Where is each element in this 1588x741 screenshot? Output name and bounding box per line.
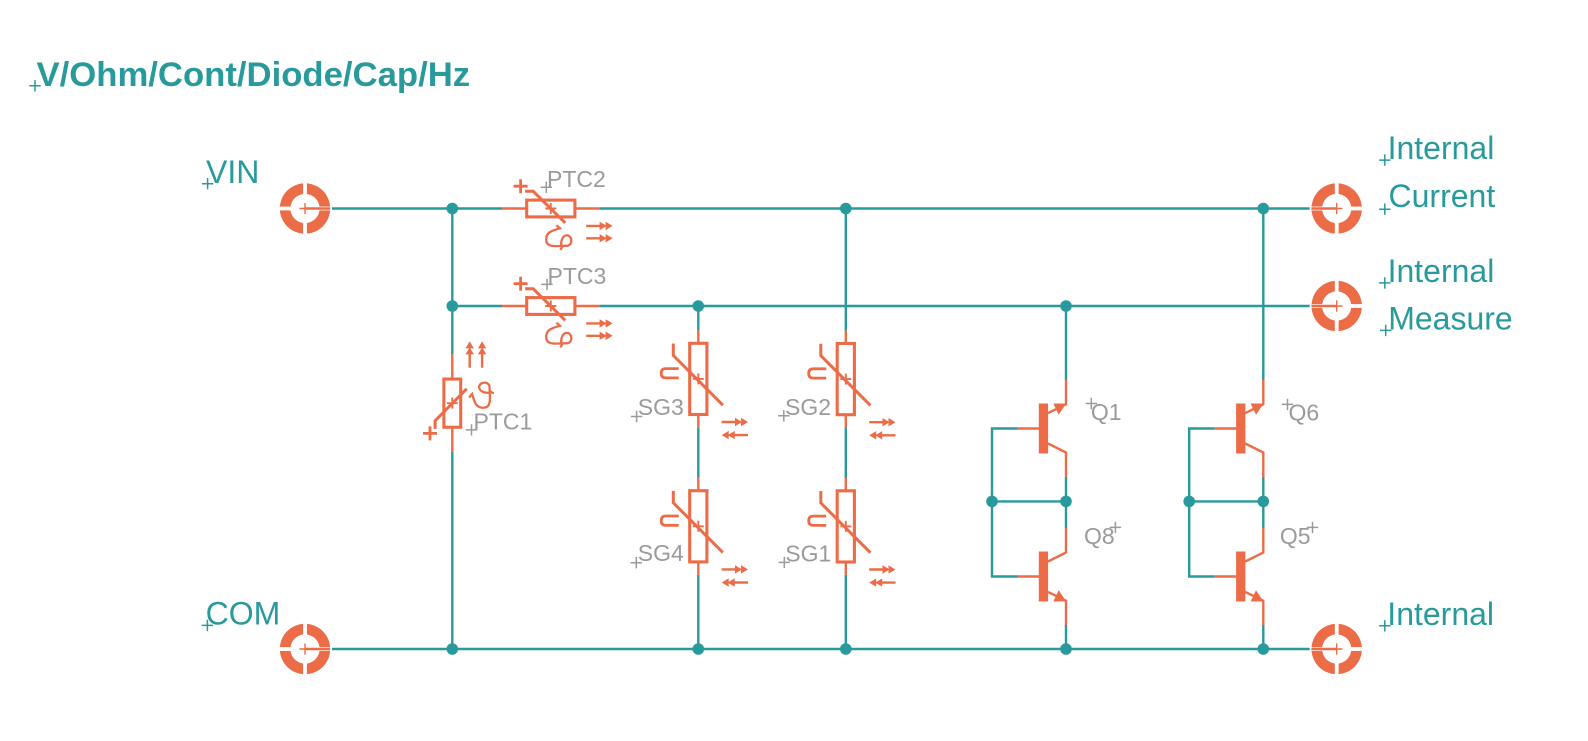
wire Q1 collector to mid xyxy=(1065,477,1067,528)
label PTC3 xyxy=(541,263,606,290)
node second rail / PTC1 col xyxy=(447,300,459,312)
wire Q1/Q8 mid xyxy=(992,500,1066,502)
transistor Q1 xyxy=(1018,380,1067,477)
node top rail / SG2 col xyxy=(840,203,852,215)
label Q6 xyxy=(1282,399,1319,426)
svg-text:SG2: SG2 xyxy=(785,394,831,420)
node Q1Q8 mid right xyxy=(1060,496,1072,508)
wire Q5 emitter to rail xyxy=(1262,625,1264,649)
wire Q1 emitter xyxy=(1065,306,1067,380)
wire SG3-SG4 xyxy=(697,427,699,477)
wire Q6/Q5 base loop xyxy=(1189,429,1215,577)
node second rail / SG3 col xyxy=(693,300,705,312)
thermistor PTC3 xyxy=(502,277,613,348)
svg-text:V/Ohm/Cont/Diode/Cap/Hz: V/Ohm/Cont/Diode/Cap/Hz xyxy=(37,56,471,94)
varistor SG4 xyxy=(661,478,748,587)
svg-text:Internal: Internal xyxy=(1388,130,1495,166)
wire PTC1 column upper xyxy=(451,209,453,355)
wire SG2 top xyxy=(845,209,847,331)
varistor SG2 xyxy=(809,331,896,440)
svg-text:SG1: SG1 xyxy=(785,540,831,566)
varistor SG3 xyxy=(661,330,748,439)
wires (teal) xyxy=(330,209,1311,650)
wire PTC1 column lower xyxy=(451,452,453,649)
port Internal Measure xyxy=(1310,279,1364,333)
title xyxy=(29,56,470,94)
node top rail / PTC1 col xyxy=(447,203,459,215)
label Internal (current) xyxy=(1379,130,1494,166)
wire bottom rail xyxy=(330,648,1311,650)
thermistor PTC1 (rotated 90 ccw) xyxy=(423,341,494,452)
wire second rail right xyxy=(600,305,1312,307)
svg-text:PTC1: PTC1 xyxy=(474,408,533,434)
svg-text:SG3: SG3 xyxy=(638,394,684,420)
wire top rail left xyxy=(330,207,502,209)
wire second rail left xyxy=(452,305,502,307)
varistor SG1 xyxy=(809,478,896,587)
node Q6Q5 mid right xyxy=(1258,496,1270,508)
wire Q6/Q5 mid xyxy=(1189,500,1263,502)
wire SG1 bottom xyxy=(845,575,847,649)
node bottom rail / SG1 col xyxy=(840,643,852,655)
svg-text:Internal: Internal xyxy=(1387,596,1494,632)
svg-text:Current: Current xyxy=(1389,178,1496,214)
label SG1 xyxy=(779,540,832,568)
node Q1Q8 mid left xyxy=(986,496,998,508)
label Q1 xyxy=(1086,398,1122,425)
node bottom rail / Q5 col xyxy=(1258,643,1270,655)
label SG4 xyxy=(631,540,684,568)
node Q6Q5 mid left xyxy=(1183,496,1195,508)
thermistor PTC2 xyxy=(502,179,613,250)
wire Q8 emitter to rail xyxy=(1065,625,1067,649)
label Current xyxy=(1379,178,1495,215)
label Internal (bottom) xyxy=(1379,596,1494,632)
svg-text:PTC2: PTC2 xyxy=(547,166,606,192)
label PTC1 xyxy=(466,408,532,435)
svg-text:PTC3: PTC3 xyxy=(548,263,607,289)
label COM xyxy=(202,596,281,632)
label Internal (measure) xyxy=(1379,253,1494,289)
label VIN xyxy=(202,154,259,190)
transistor Q6 xyxy=(1215,380,1264,477)
svg-text:SG4: SG4 xyxy=(638,540,684,566)
wire SG4 bottom xyxy=(697,575,699,649)
svg-text:Q5: Q5 xyxy=(1280,523,1311,549)
transistor Q8 xyxy=(1018,528,1067,625)
wire Q6 collector to mid xyxy=(1262,477,1264,528)
node second rail / Q1 col xyxy=(1060,300,1072,312)
port Internal Current xyxy=(1310,182,1364,236)
node bottom rail / Q8 col xyxy=(1060,643,1072,655)
label SG3 xyxy=(631,394,684,422)
svg-text:Measure: Measure xyxy=(1388,301,1513,337)
wire Q6 emitter xyxy=(1262,209,1264,381)
svg-text:Internal: Internal xyxy=(1388,253,1495,289)
port VIN xyxy=(278,182,332,236)
node bottom rail / PTC1 col xyxy=(447,643,459,655)
node top rail / Q6 col xyxy=(1258,203,1270,215)
node bottom rail / SG4 col xyxy=(693,643,705,655)
wire SG2-SG1 xyxy=(845,428,847,478)
wire top rail right xyxy=(600,207,1312,209)
port COM xyxy=(278,622,332,676)
label PTC2 xyxy=(541,166,606,193)
label Q8 xyxy=(1084,522,1121,549)
wire SG3 top xyxy=(697,306,699,330)
svg-text:COM: COM xyxy=(206,596,281,632)
label SG2 xyxy=(778,394,831,422)
label Q5 xyxy=(1280,522,1318,549)
port Internal bottom xyxy=(1310,622,1364,676)
svg-text:Q6: Q6 xyxy=(1289,400,1320,426)
label Measure xyxy=(1380,301,1513,337)
svg-text:VIN: VIN xyxy=(206,154,259,190)
wire Q1/Q8 base loop xyxy=(992,429,1018,577)
transistor Q5 xyxy=(1215,528,1264,625)
